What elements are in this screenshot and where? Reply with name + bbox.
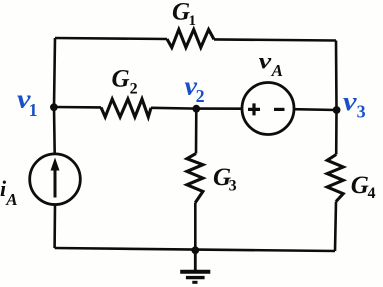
svg-text:3: 3 (357, 102, 366, 122)
svg-text:G: G (112, 65, 130, 92)
svg-text:2: 2 (130, 80, 138, 97)
svg-text:G: G (172, 0, 190, 26)
svg-text:4: 4 (368, 185, 376, 202)
svg-text:1: 1 (29, 100, 38, 120)
svg-text:2: 2 (196, 86, 205, 106)
svg-text:3: 3 (229, 178, 237, 195)
svg-text:v: v (259, 49, 272, 74)
svg-text:G: G (351, 172, 369, 199)
svg-text:1: 1 (189, 13, 197, 29)
svg-text:A: A (5, 190, 17, 209)
svg-text:A: A (271, 61, 283, 80)
svg-text:v: v (343, 87, 357, 116)
